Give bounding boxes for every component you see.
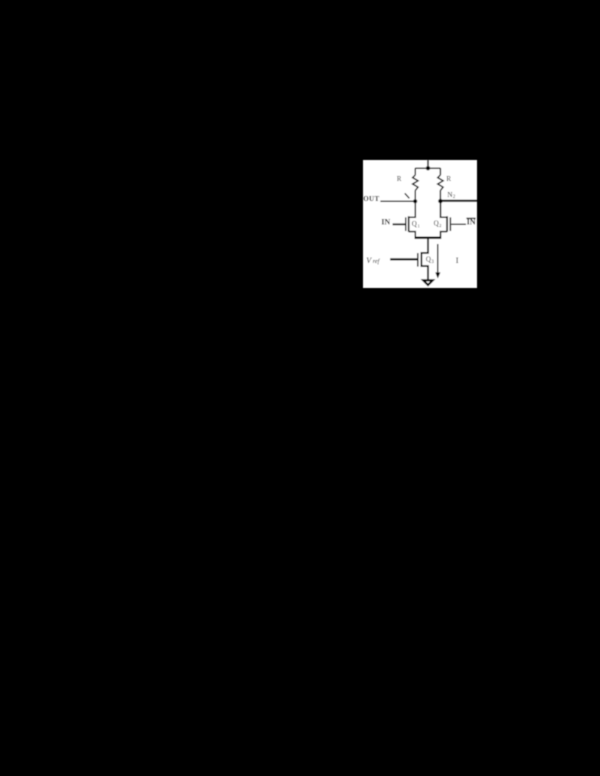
svg-text:2: 2 [439,223,441,228]
svg-text:IN: IN [381,218,390,227]
svg-text:1: 1 [418,223,420,228]
svg-text:IN: IN [467,217,476,226]
svg-text:R: R [446,175,451,183]
svg-text:Q: Q [426,256,431,264]
svg-text:Q: Q [412,220,417,228]
svg-text:N: N [447,191,452,199]
svg-text:R: R [397,175,402,183]
svg-text:OUT: OUT [363,195,379,203]
svg-text:Q: Q [434,220,439,228]
svg-text:I: I [456,255,459,265]
